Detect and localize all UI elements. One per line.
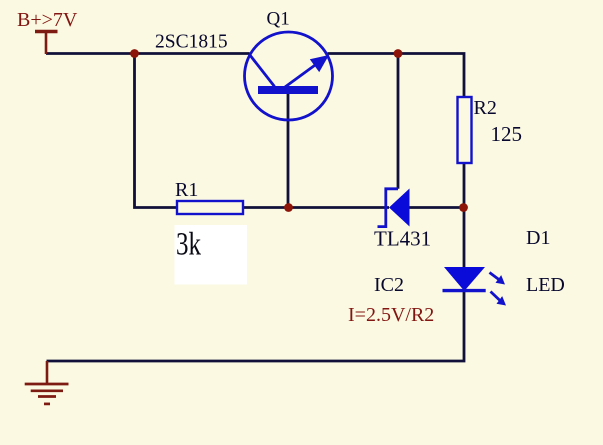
svg-text:TL431: TL431 — [374, 227, 431, 251]
svg-text:D1: D1 — [526, 227, 550, 249]
svg-text:2SC1815: 2SC1815 — [155, 32, 228, 53]
svg-text:125: 125 — [491, 122, 523, 146]
svg-text:R2: R2 — [474, 97, 497, 119]
svg-text:R1: R1 — [175, 179, 198, 201]
svg-text:IC2: IC2 — [374, 274, 404, 296]
svg-text:B+>7V: B+>7V — [17, 9, 78, 31]
svg-text:I=2.5V/R2: I=2.5V/R2 — [348, 304, 434, 326]
svg-text:Q1: Q1 — [267, 9, 290, 30]
svg-text:LED: LED — [526, 274, 565, 296]
svg-text:3k: 3k — [176, 226, 201, 262]
